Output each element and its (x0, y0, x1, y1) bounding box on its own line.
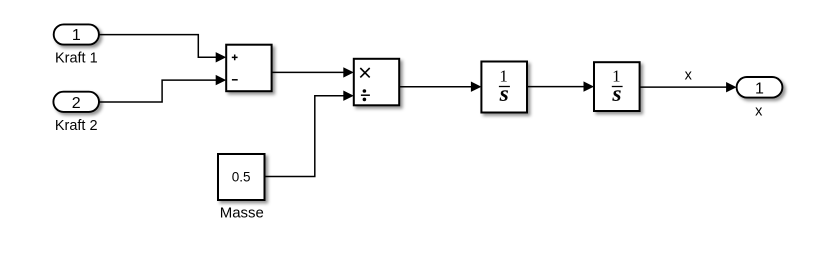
wire from sum to product x input (272, 67, 354, 77)
svg-text:x: x (685, 68, 693, 84)
inport block Kraft 1 (oval 1) (54, 24, 99, 44)
svg-text:1: 1 (755, 80, 764, 97)
svg-text:s: s (611, 81, 621, 107)
svg-text:0.5: 0.5 (232, 170, 251, 185)
wire from integrator 2 to outport (640, 82, 737, 92)
wire from constant to product divide input (265, 91, 354, 177)
inport block Kraft 2 (oval 2) (53, 92, 99, 113)
outport block x (oval 1) (737, 77, 783, 98)
constant block 0.5 (218, 154, 265, 200)
svg-text:Kraft 2: Kraft 2 (55, 118, 98, 134)
svg-text:s: s (499, 81, 509, 107)
integrator 1 block (1/s) (481, 62, 527, 113)
wire from integrator 1 to integrator 2 (527, 81, 594, 91)
svg-text:x: x (755, 104, 763, 120)
sum block (226, 45, 271, 91)
svg-text:Kraft 1: Kraft 1 (55, 51, 98, 67)
svg-text:1: 1 (72, 27, 81, 44)
wire from Kraft 2 to sum - input (99, 75, 226, 102)
wire from product to integrator 1 (399, 82, 481, 92)
wire from Kraft 1 to sum + input (99, 35, 226, 63)
svg-text:Masse: Masse (220, 205, 264, 222)
product (divide) block (354, 59, 399, 106)
integrator 2 block (1/s) (594, 62, 640, 111)
svg-text:2: 2 (72, 95, 81, 112)
